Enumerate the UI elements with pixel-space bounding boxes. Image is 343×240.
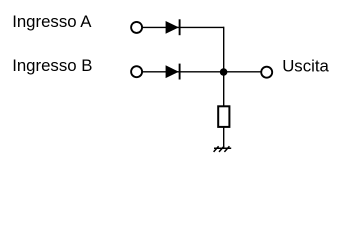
- svg-text:Ingresso B: Ingresso B: [12, 56, 92, 75]
- svg-text:Ingresso A: Ingresso A: [12, 12, 92, 31]
- svg-text:Uscita: Uscita: [282, 56, 329, 75]
